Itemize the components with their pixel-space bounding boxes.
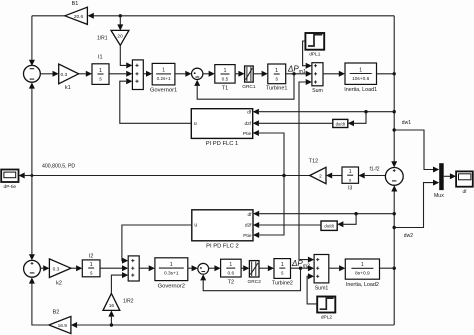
wire Ptie to Sum in3 [299,79,312,176]
label f1-f2 [370,167,380,173]
wire Mux to df scope [444,173,456,179]
mux1 governor input sum [132,60,143,90]
svg-text:1: 1 [224,68,227,74]
wire B2 to S2 [29,277,49,325]
svg-text:0.2s+1: 0.2s+1 [157,76,171,81]
svg-text:d2f: d2f [245,121,252,127]
svg-text:GRC2: GRC2 [248,279,262,285]
wire Sum1 to Inertia2 [329,265,346,271]
wire dw1 to Mux upper [394,130,439,173]
wire dw2 vertical [391,185,397,325]
wire T2 to GRC2 [241,265,249,271]
wire bottom to 1/R2 [108,310,114,325]
integrator I1 [92,55,109,85]
svg-text:1: 1 [281,262,284,268]
svg-text:f1-f2: f1-f2 [370,167,380,173]
wire I3 to T12 [326,173,342,179]
wire Inertia2 to dw2 node [380,267,395,269]
svg-text:u: u [194,223,197,229]
label dPm1 [287,65,306,76]
wire turbine feedback to S3 [194,74,294,99]
wire k1 to I1 [79,71,92,77]
svg-text:T2: T2 [228,279,234,285]
wire dw2 to Mux lower [394,180,439,228]
svg-text:I3: I3 [348,186,352,192]
junction to 1/R1 [117,14,123,31]
wire GRC2 to Turbine2 [259,265,274,271]
wire 1/R1 to mux1 in1 [120,45,132,68]
block Turbine2 [272,259,293,287]
svg-text:dPL2: dPL2 [321,314,333,320]
block Inertia Load2 [345,259,379,288]
svg-text:T12: T12 [309,158,318,164]
svg-text:dw2: dw2 [404,233,413,239]
svg-text:d2f: d2f [245,223,252,229]
wire k2 to I2 [71,265,82,271]
wire dw1 to FLC1 df [253,109,395,115]
wire Ptie branch to FLC2 [253,176,284,239]
wire Governor1 to S3 [175,71,192,77]
gain k1 [59,64,79,91]
integrator I2 [82,253,100,277]
svg-text:dP-tie: dP-tie [4,184,17,190]
svg-text:Sum1: Sum1 [315,285,329,291]
scope df [456,171,473,194]
wire dw2 to dudt2 [337,214,356,228]
svg-text:1/R1: 1/R1 [97,36,108,42]
block T1 [215,65,235,92]
sum S5 f1-f2 [385,168,403,186]
svg-text:16: 16 [109,303,115,309]
wire dudt1 to FLC1 d2f [253,120,333,126]
wire T1 to GRC1 [235,71,245,77]
svg-text:20: 20 [117,33,123,39]
gain T12 [309,158,326,183]
svg-text:16.9: 16.9 [58,323,68,329]
wire dw1 to dudt1 [348,112,366,127]
wire top feedback dw1 to B1 and 1/R1 [32,13,394,60]
gain B1 [65,1,88,24]
wire Turbine2 to Sum1 [291,265,315,271]
svg-text:Turbine2: Turbine2 [272,280,293,286]
wire Sum to Inertia1 [323,71,345,77]
svg-text:df: df [462,189,467,195]
integrator I3 [342,167,359,192]
block Governor1 [150,63,177,93]
svg-text:Inertia, Load2: Inertia, Load2 [346,282,379,288]
svg-text:400,800,5, PD: 400,800,5, PD [42,164,75,170]
svg-text:10s+0.6: 10s+0.6 [352,76,370,82]
gain 1/R1 [97,30,129,45]
mux2 governor input sum [128,256,139,281]
svg-text:B1: B1 [72,1,79,7]
wire Ptie to Sum1 in1 [299,176,314,263]
derivative dudt1 [333,119,348,127]
wire S5 to I3 [359,173,386,179]
scope dP-tie [1,170,18,191]
wire Ptie down to S2 [29,176,35,261]
gain k2 [49,259,71,286]
svg-text:1: 1 [275,68,278,74]
svg-text:0.3s+1: 0.3s+1 [164,271,179,277]
svg-text:2: 2 [319,174,322,180]
svg-text:k2: k2 [56,280,62,286]
label 400 800 5 PD [42,164,75,170]
controller PI PD FLC 1 [191,109,252,147]
svg-text:1/R2: 1/R2 [123,299,134,305]
wire Ptie up to S1 [29,82,35,175]
wire dw2 bottom to B2 [71,322,394,328]
svg-text:1: 1 [170,262,173,268]
sum S1 area1 error [24,60,41,82]
svg-text:PI PD FLC 1: PI PD FLC 1 [206,141,239,147]
wire Ptie to dP-tie scope [19,173,32,179]
wire mux2 to Governor2 [139,265,155,271]
svg-text:k1: k1 [65,85,71,91]
block Sum area1 [312,63,323,94]
svg-text:Sum: Sum [312,88,323,94]
svg-text:du/dt: du/dt [324,223,334,228]
svg-text:B2: B2 [53,310,60,316]
wire Ptie main line [30,174,309,177]
block Inertia Load1 [344,63,377,93]
svg-text:df: df [247,212,252,218]
label dPm2 [291,259,310,270]
svg-text:dPL1: dPL1 [309,52,321,58]
svg-text:1: 1 [162,68,165,74]
svg-text:GRC1: GRC1 [242,84,256,90]
wire S2 out to k2 [40,265,49,271]
svg-text:Mux: Mux [434,193,444,199]
svg-text:Inertia, Load1: Inertia, Load1 [344,87,377,93]
wire S3 to T1 [203,71,215,77]
svg-text:PI PD FLC 2: PI PD FLC 2 [206,243,239,249]
sum S2 area2 error [24,260,41,277]
rate limiter GRC1 [242,66,256,90]
wire FLC2 u to mux2 in1 [122,225,192,264]
svg-text:Governor1: Governor1 [150,87,177,93]
controller PI PD FLC 2 [192,210,253,250]
wire I1 to mux1 in2 [109,71,132,77]
block Sum1 area2 [314,255,329,292]
block Turbine1 [266,64,288,92]
svg-text:df: df [247,110,252,116]
svg-text:Ptie: Ptie [243,233,252,239]
block T2 [221,259,242,285]
wire Ptie branch to FLC1 [253,130,284,176]
svg-text:1: 1 [99,68,102,74]
svg-text:Turbine1: Turbine1 [266,86,288,92]
svg-text:20.6: 20.6 [74,14,84,20]
gain B2 [49,310,71,334]
wire Inertia1 to dw1 node [377,72,396,75]
gain 1/R2 [103,294,134,311]
wire S1 out to k1 [40,71,58,77]
svg-text:0.5: 0.5 [222,76,229,82]
step dPL1 [305,33,324,58]
mux Mux [434,163,444,199]
wire 1/R2 to mux2 in3 [111,272,128,293]
svg-text:1: 1 [361,262,364,268]
wire GRC1 to Turbine1 [253,71,268,77]
svg-text:1: 1 [90,262,93,268]
rate limiter GRC2 [248,261,262,285]
wire S4 to T2 [209,265,221,271]
svg-text:Ptie: Ptie [243,131,252,137]
wire mux1 to Governor1 [143,71,152,77]
label dw2 [404,233,413,239]
svg-text:du/dt: du/dt [336,121,346,126]
svg-text:1: 1 [229,262,232,268]
svg-text:I1: I1 [98,55,103,61]
svg-text:0.3: 0.3 [53,266,60,272]
wire dPL1 to Sum in1 [303,41,312,69]
svg-text:I2: I2 [89,253,94,259]
wire Turbine1 to Sum [286,71,312,77]
svg-text:u: u [194,121,197,127]
block Governor2 [155,258,188,290]
svg-text:Governor2: Governor2 [158,284,185,290]
svg-text:0.6: 0.6 [227,271,234,277]
derivative dudt2 [321,221,337,230]
wire dudt2 to FLC2 d2f [253,222,321,228]
svg-text:1: 1 [359,67,362,73]
wire Governor2 to S4 [188,265,198,271]
wire dw1 vertical [391,16,397,168]
svg-text:1: 1 [349,169,352,175]
wire I2 to mux2 in2 [100,265,128,271]
step dPL2 [317,297,335,321]
wire dw2 to FLC2 df [253,211,394,217]
label dw1 [402,120,411,126]
sum S3 governor feedback [192,68,203,79]
svg-text:T1: T1 [222,86,228,92]
wire FLC1 u to mux1 in3 [120,78,192,123]
wire turbine2 feedback to S4 [200,268,300,291]
svg-text:dw1: dw1 [402,120,411,126]
svg-text:8s+0.9: 8s+0.9 [355,271,370,277]
sum S4 governor2 feedback [198,263,209,274]
wire dPL2 to Sum1 in3 [307,273,317,304]
svg-text:0.3: 0.3 [60,72,67,78]
